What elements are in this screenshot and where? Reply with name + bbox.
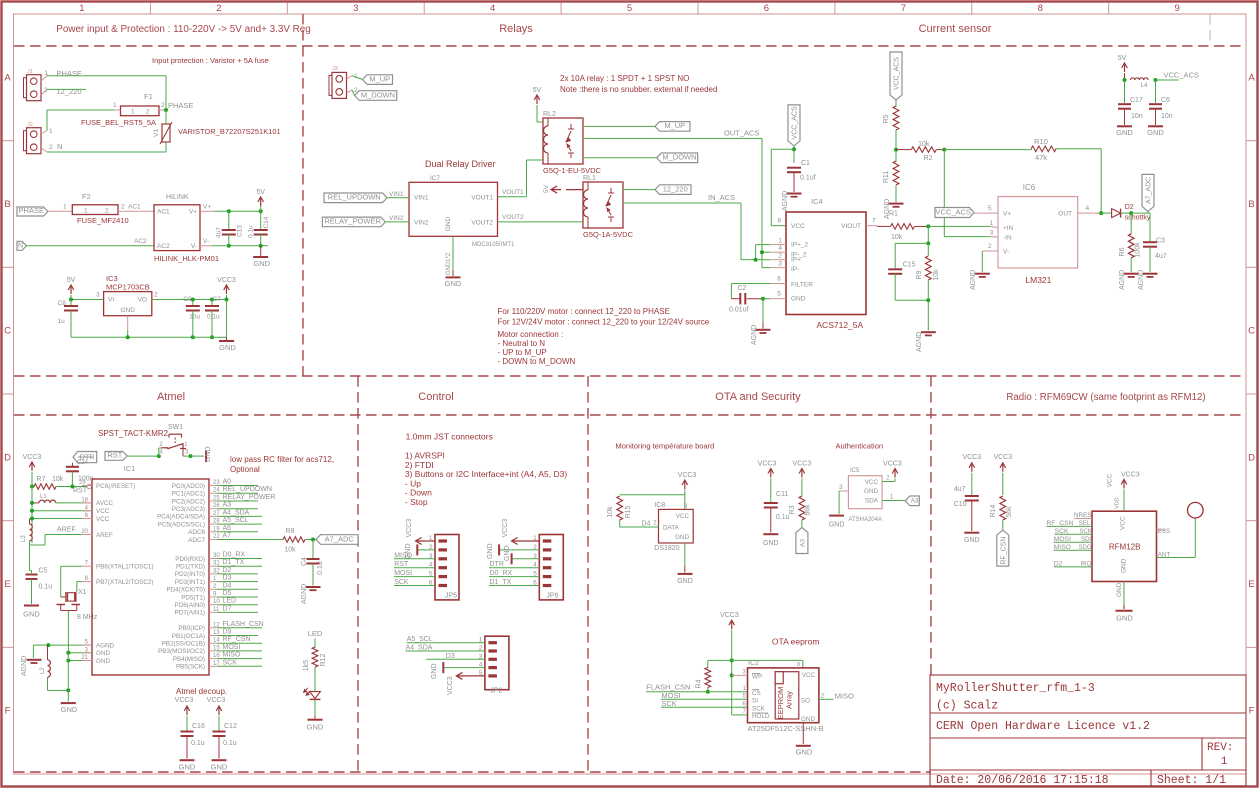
svg-text:OUT: OUT [1058, 211, 1072, 218]
svg-text:SCK: SCK [752, 705, 766, 712]
svg-text:IC2: IC2 [748, 660, 759, 667]
svg-text:L1: L1 [40, 494, 47, 500]
svg-text:PD2(INT0): PD2(INT0) [175, 571, 205, 578]
svg-text:1: 1 [79, 3, 84, 14]
svg-text:12_220: 12_220 [663, 184, 688, 193]
svg-text:SCK: SCK [394, 579, 409, 586]
svg-text:3: 3 [353, 3, 358, 14]
svg-text:D0_RX: D0_RX [490, 570, 513, 577]
svg-text:PC1(ADC1): PC1(ADC1) [172, 491, 205, 498]
svg-text:Relays: Relays [499, 23, 533, 35]
svg-text:V1: V1 [153, 129, 160, 137]
svg-text:RL1: RL1 [583, 175, 596, 182]
svg-text:5V: 5V [67, 277, 76, 284]
svg-text:VCC3: VCC3 [793, 461, 812, 468]
svg-text:AGND: AGND [21, 656, 28, 676]
svg-text:PB2(SS/OC1B): PB2(SS/OC1B) [162, 641, 205, 648]
svg-text:5: 5 [627, 3, 632, 14]
svg-text:10n: 10n [1131, 113, 1143, 120]
svg-text:R9: R9 [916, 270, 923, 279]
svg-text:GND: GND [829, 522, 845, 529]
svg-text:GND: GND [1116, 128, 1133, 137]
svg-text:GND: GND [23, 610, 40, 619]
svg-text:PC6(/RESET): PC6(/RESET) [96, 483, 135, 490]
svg-text:D3: D3 [223, 575, 232, 582]
svg-text:Array: Array [785, 691, 794, 709]
svg-text:SDA: SDA [865, 498, 879, 505]
svg-text:A4_SDA: A4_SDA [223, 509, 250, 516]
svg-text:C10: C10 [954, 501, 967, 508]
svg-text:AC1: AC1 [157, 209, 170, 216]
svg-text:GND: GND [675, 534, 689, 541]
svg-text:GND: GND [1121, 558, 1128, 573]
svg-text:C5: C5 [39, 568, 48, 575]
svg-text:VCC3: VCC3 [175, 697, 194, 704]
svg-text:2: 2 [988, 243, 992, 250]
svg-text:D3: D3 [446, 653, 455, 660]
svg-text:3: 3 [778, 261, 782, 268]
svg-text:DS1820: DS1820 [654, 545, 679, 552]
svg-text:F: F [5, 706, 11, 717]
svg-text:3: 3 [990, 230, 994, 237]
svg-text:2: 2 [146, 109, 150, 116]
svg-text:C15: C15 [903, 262, 916, 269]
svg-text:2: 2 [778, 253, 782, 260]
svg-text:VIN2: VIN2 [389, 215, 404, 222]
svg-text:Optional: Optional [230, 465, 260, 474]
svg-text:HOLD: HOLD [752, 713, 770, 720]
svg-text:A3: A3 [223, 502, 232, 509]
svg-text:MISO: MISO [394, 552, 412, 559]
svg-text:PB5(SCK): PB5(SCK) [176, 664, 205, 671]
svg-text:FUSE_BEL_RST5_5A: FUSE_BEL_RST5_5A [81, 118, 156, 127]
svg-text:2x 10A relay : 1 SPDT + 1 SPST: 2x 10A relay : 1 SPDT + 1 SPST NO [560, 74, 689, 83]
svg-text:AGND: AGND [916, 332, 923, 352]
svg-text:MISO: MISO [835, 692, 854, 701]
svg-text:GND: GND [219, 343, 236, 352]
svg-text:VCC_ACS: VCC_ACS [894, 57, 901, 90]
svg-text:RELAY_POWER: RELAY_POWER [324, 217, 381, 226]
svg-text:OTA eeprom: OTA eeprom [772, 637, 820, 647]
svg-text:IC8: IC8 [654, 502, 665, 509]
svg-text:PD3(INT1): PD3(INT1) [175, 579, 205, 586]
svg-text:SI: SI [752, 697, 758, 704]
svg-text:REL_UPDOWN: REL_UPDOWN [223, 486, 272, 493]
svg-text:ACS712_5A: ACS712_5A [816, 320, 863, 330]
svg-text:GND: GND [445, 216, 452, 231]
svg-text:VARISTOR_B72207S251K101: VARISTOR_B72207S251K101 [178, 127, 281, 136]
svg-text:AREF: AREF [96, 532, 113, 539]
svg-text:RST: RST [107, 450, 122, 459]
svg-text:GND: GND [179, 763, 196, 772]
svg-text:10k: 10k [933, 269, 940, 281]
svg-text:Radio : RFM69CW (same footprin: Radio : RFM69CW (same footprint as RFM12… [1006, 392, 1205, 403]
svg-text:RF_CSN: RF_CSN [223, 636, 251, 643]
svg-text:F: F [1249, 706, 1255, 717]
svg-text:VCC3: VCC3 [207, 697, 226, 704]
svg-text:N: N [18, 242, 23, 249]
svg-text:R3: R3 [789, 505, 796, 514]
svg-text:8: 8 [797, 662, 800, 668]
svg-text:AVCC: AVCC [96, 500, 113, 507]
svg-text:Motor connection :: Motor connection : [498, 330, 564, 339]
svg-text:Current sensor: Current sensor [919, 23, 992, 35]
svg-text:GND: GND [445, 279, 462, 288]
svg-text:VCC3: VCC3 [993, 454, 1012, 461]
svg-text:SDO: SDO [1079, 545, 1092, 551]
svg-text:V-: V- [191, 243, 197, 250]
svg-text:4u7: 4u7 [954, 486, 966, 493]
svg-text:E: E [1248, 579, 1254, 590]
svg-text:SO: SO [801, 697, 810, 704]
svg-text:C: C [1248, 326, 1255, 337]
svg-text:D7: D7 [223, 605, 232, 612]
svg-text:GND: GND [791, 295, 806, 302]
svg-text:B: B [1248, 199, 1254, 210]
svg-text:AREF: AREF [57, 527, 76, 534]
svg-text:0.1u: 0.1u [248, 225, 255, 238]
svg-text:0.1u: 0.1u [223, 740, 237, 747]
svg-text:(c) Scalz: (c) Scalz [936, 700, 998, 713]
svg-text:MOSI: MOSI [1054, 536, 1071, 543]
svg-text:VIN1: VIN1 [414, 195, 429, 202]
svg-text:2: 2 [44, 87, 48, 94]
svg-text:GND: GND [61, 705, 78, 714]
svg-text:56k: 56k [805, 504, 812, 516]
svg-text:PC4(ADC4/SDA): PC4(ADC4/SDA) [157, 514, 205, 521]
svg-text:IP+: IP+ [791, 256, 801, 263]
svg-text:PD5(T1): PD5(T1) [181, 594, 205, 601]
svg-text:low pass RC filter for acs712,: low pass RC filter for acs712, [230, 455, 334, 464]
svg-text:FUSE_MF2410: FUSE_MF2410 [77, 216, 129, 225]
svg-text:0.1u: 0.1u [207, 314, 220, 321]
svg-text:R2: R2 [924, 155, 933, 162]
svg-text:R12: R12 [320, 653, 327, 666]
svg-text:PD4(XCK/T0): PD4(XCK/T0) [167, 587, 206, 594]
svg-text:21: 21 [81, 655, 88, 661]
svg-text:IC6: IC6 [1023, 183, 1036, 192]
svg-text:For 110/220V motor : connect 1: For 110/220V motor : connect 12_220 to P… [498, 307, 670, 316]
svg-text:1: 1 [990, 220, 994, 227]
svg-text:L4: L4 [1141, 83, 1148, 89]
svg-text:10k: 10k [891, 234, 903, 241]
svg-text:20: 20 [81, 529, 88, 535]
svg-text:10n: 10n [1161, 113, 1173, 120]
svg-text:2: 2 [154, 292, 158, 299]
svg-text:E: E [4, 579, 10, 590]
svg-text:8: 8 [778, 218, 782, 225]
svg-text:B: B [4, 199, 10, 210]
svg-text:ADC7: ADC7 [188, 537, 205, 544]
svg-text:6: 6 [777, 276, 781, 283]
svg-text:R14: R14 [990, 504, 997, 517]
svg-text:C12: C12 [224, 723, 237, 730]
svg-text:SCK: SCK [1080, 529, 1092, 535]
svg-text:1: 1 [84, 207, 88, 214]
svg-text:M_UP: M_UP [664, 121, 685, 130]
svg-text:PD0(RXD): PD0(RXD) [175, 556, 205, 563]
svg-text:J2: J2 [27, 122, 33, 128]
svg-text:R5: R5 [883, 114, 890, 123]
svg-text:ADC6: ADC6 [188, 529, 205, 536]
svg-text:4: 4 [490, 3, 495, 14]
svg-text:VCC_ACS: VCC_ACS [1164, 71, 1199, 80]
svg-text:GND: GND [1116, 582, 1123, 597]
svg-text:AC2: AC2 [157, 243, 170, 250]
svg-text:SPST_TACT-KMR2: SPST_TACT-KMR2 [98, 429, 169, 438]
svg-text:8 MHz: 8 MHz [77, 614, 98, 621]
svg-text:VCC3: VCC3 [758, 461, 777, 468]
svg-text:WP: WP [752, 674, 762, 681]
svg-text:VO: VO [138, 297, 147, 304]
svg-text:A4_SDA: A4_SDA [406, 645, 433, 652]
svg-text:PD6(AIN0): PD6(AIN0) [175, 602, 205, 609]
svg-text:3) Buttons or I2C Interface+in: 3) Buttons or I2C Interface+int (A4, A5,… [405, 469, 567, 479]
svg-text:PD1(TXD): PD1(TXD) [176, 564, 205, 571]
svg-text:1: 1 [49, 128, 53, 135]
svg-text:FILTER: FILTER [791, 282, 813, 289]
svg-text:ATSHA204A: ATSHA204A [848, 517, 882, 523]
svg-text:VOUT1: VOUT1 [471, 195, 493, 202]
svg-text:Input protection : Varistor +: Input protection : Varistor + 5A fuse [152, 56, 269, 65]
svg-text:- UP to M_UP: - UP to M_UP [498, 348, 547, 357]
svg-text:VCC_ACS: VCC_ACS [792, 106, 799, 139]
svg-text:D2: D2 [1125, 204, 1134, 211]
svg-text:J1: J1 [27, 69, 33, 75]
svg-text:5V: 5V [543, 184, 550, 193]
svg-text:PB4(MISO): PB4(MISO) [173, 656, 205, 663]
svg-text:VCC: VCC [791, 223, 805, 230]
svg-text:FLASH_CSN: FLASH_CSN [223, 621, 264, 628]
svg-text:PHASE: PHASE [168, 101, 193, 110]
svg-text:V+: V+ [203, 204, 211, 211]
svg-text:PC5(ADC5/SCL): PC5(ADC5/SCL) [158, 521, 205, 528]
svg-text:VCC3: VCC3 [406, 519, 413, 538]
svg-text:A6: A6 [223, 525, 232, 532]
svg-text:GND: GND [96, 658, 110, 665]
svg-text:7: 7 [901, 3, 906, 14]
svg-text:1: 1 [1221, 756, 1228, 768]
svg-text:GND: GND [796, 748, 813, 757]
svg-text:47k: 47k [1035, 153, 1047, 162]
svg-text:AC2: AC2 [134, 238, 147, 245]
svg-text:R11: R11 [883, 171, 890, 183]
svg-text:AGND: AGND [96, 642, 115, 649]
svg-text:C24: C24 [77, 460, 89, 466]
svg-text:R8: R8 [286, 528, 295, 535]
svg-text:GND: GND [205, 446, 212, 462]
svg-text:G5Q-1A-5VDC: G5Q-1A-5VDC [583, 230, 634, 239]
svg-text:1: 1 [131, 109, 135, 116]
svg-text:MyRollerShutter_rfm_1-3: MyRollerShutter_rfm_1-3 [936, 682, 1095, 695]
svg-text:CS: CS [752, 690, 761, 697]
svg-text:CERN Open Hardware Licence v1.: CERN Open Hardware Licence v1.2 [936, 720, 1150, 733]
svg-text:M_DOWN: M_DOWN [361, 90, 395, 99]
svg-text:M_DOWN: M_DOWN [662, 153, 696, 162]
svg-text:R7: R7 [36, 476, 45, 483]
svg-text:VCC: VCC [96, 508, 110, 515]
svg-text:10k: 10k [918, 141, 930, 148]
svg-text:GND: GND [864, 488, 878, 495]
svg-text:LED: LED [223, 598, 237, 605]
svg-text:0.1u: 0.1u [317, 561, 324, 575]
svg-text:A3: A3 [799, 539, 806, 547]
svg-text:5: 5 [988, 205, 992, 212]
svg-text:LED: LED [308, 629, 323, 638]
svg-text:LM321: LM321 [1025, 275, 1051, 285]
svg-text:C6: C6 [1161, 97, 1170, 104]
svg-text:OUT_ACS: OUT_ACS [724, 129, 759, 138]
svg-text:- DOWN to M_DOWN: - DOWN to M_DOWN [498, 357, 576, 366]
svg-text:8: 8 [1038, 3, 1043, 14]
svg-text:C13: C13 [237, 225, 244, 237]
svg-text:Authentication: Authentication [836, 442, 884, 451]
svg-text:C1: C1 [801, 160, 810, 167]
svg-text:GND: GND [801, 716, 815, 723]
svg-text:+IN: +IN [1003, 225, 1014, 232]
svg-text:SCK: SCK [1055, 528, 1069, 535]
svg-text:GND1*2: GND1*2 [446, 252, 452, 275]
svg-text:A: A [1248, 72, 1255, 83]
svg-text:5V: 5V [256, 189, 265, 196]
svg-text:D: D [4, 452, 11, 463]
svg-text:RST: RST [394, 561, 409, 568]
svg-text:0.1u: 0.1u [39, 584, 53, 591]
svg-text:10k: 10k [607, 506, 614, 518]
svg-text:1k5: 1k5 [303, 660, 310, 671]
svg-text:VCC3: VCC3 [502, 519, 509, 538]
svg-text:A5_SCL: A5_SCL [223, 517, 249, 524]
svg-text:PB6(XTAL1/TOSC1): PB6(XTAL1/TOSC1) [96, 564, 154, 571]
svg-text:5V: 5V [1118, 55, 1127, 62]
svg-text:Dual Relay Driver: Dual Relay Driver [425, 159, 496, 169]
svg-text:Monitoring température board: Monitoring température board [616, 442, 715, 451]
svg-text:RFM12B: RFM12B [1109, 543, 1141, 552]
svg-text:SW1: SW1 [168, 424, 183, 431]
svg-text:C9: C9 [183, 296, 192, 303]
svg-text:MDC31050MT1: MDC31050MT1 [472, 242, 515, 248]
svg-text:2: 2 [49, 144, 53, 151]
svg-text:SCK: SCK [661, 699, 676, 708]
svg-text:VOUT2: VOUT2 [471, 220, 493, 227]
svg-text:10k: 10k [284, 547, 296, 554]
svg-text:PC3(ADC3): PC3(ADC3) [172, 506, 205, 513]
svg-text:V-: V- [1003, 249, 1009, 256]
svg-text:PC0(ADC0): PC0(ADC0) [172, 483, 205, 490]
svg-text:N: N [57, 142, 62, 151]
svg-text:VI: VI [108, 297, 114, 304]
svg-text:REL_UPDOWN: REL_UPDOWN [328, 193, 381, 202]
svg-text:IC5: IC5 [850, 468, 860, 474]
svg-text:C4: C4 [301, 557, 308, 566]
svg-text:C17: C17 [1130, 97, 1143, 104]
svg-text:1: 1 [778, 238, 782, 245]
svg-text:PB0(ICP): PB0(ICP) [178, 625, 205, 632]
svg-text:SCK: SCK [223, 659, 238, 666]
svg-text:AGND: AGND [1119, 270, 1126, 290]
svg-text:1: 1 [63, 204, 67, 211]
svg-text:D5: D5 [223, 590, 232, 597]
svg-text:Date: 20/06/2016 17:15:18: Date: 20/06/2016 17:15:18 [936, 774, 1109, 787]
svg-text:IRQ: IRQ [1081, 561, 1092, 567]
svg-text:0.1uf: 0.1uf [800, 175, 816, 182]
svg-text:10u: 10u [189, 314, 200, 321]
svg-text:J3: J3 [332, 66, 338, 72]
svg-text:AGND: AGND [884, 199, 891, 219]
svg-text:For 12V/24V motor : connect 12: For 12V/24V motor : connect 12_220 to yo… [498, 318, 710, 327]
svg-text:L3: L3 [21, 535, 27, 542]
svg-text:MISO: MISO [1054, 544, 1071, 551]
svg-text:12_220: 12_220 [57, 87, 82, 96]
svg-text:D1_TX: D1_TX [490, 579, 512, 586]
svg-text:GND: GND [487, 543, 494, 559]
svg-text:0.1u: 0.1u [191, 740, 205, 747]
svg-text:PB3(MOSI/OC2): PB3(MOSI/OC2) [158, 648, 205, 655]
svg-text:A0: A0 [223, 479, 232, 486]
svg-text:V-: V- [203, 238, 209, 245]
svg-text:IC7: IC7 [430, 175, 441, 182]
svg-text:C8: C8 [58, 300, 67, 307]
svg-text:2: 2 [105, 207, 109, 214]
svg-text:R15: R15 [625, 505, 632, 518]
svg-text:JP6: JP6 [546, 593, 558, 600]
svg-text:VCC3: VCC3 [678, 472, 697, 479]
svg-text:schottky: schottky [1125, 215, 1151, 222]
svg-text:R6: R6 [1119, 247, 1126, 256]
svg-text:GND: GND [120, 307, 135, 314]
svg-text:VIOUT: VIOUT [841, 223, 861, 230]
svg-text:D: D [1248, 452, 1255, 463]
svg-text:DATA: DATA [663, 525, 680, 532]
svg-text:10k: 10k [52, 476, 64, 483]
svg-text:-IN: -IN [1003, 235, 1012, 242]
svg-text:MCP1703CB: MCP1703CB [106, 283, 150, 292]
svg-text:RF_CSN: RF_CSN [1046, 520, 1073, 527]
svg-text:9: 9 [1175, 3, 1180, 14]
svg-text:VOUT1: VOUT1 [502, 189, 524, 196]
svg-text:GND: GND [431, 663, 438, 679]
svg-text:HILINK: HILINK [166, 194, 189, 201]
svg-text:Sheet: 1/1: Sheet: 1/1 [1157, 774, 1226, 787]
svg-text:GND: GND [677, 578, 693, 585]
svg-text:D2: D2 [1054, 560, 1063, 567]
svg-text:MOSI: MOSI [394, 570, 412, 577]
svg-text:A: A [4, 72, 11, 83]
svg-text:RF_CSN: RF_CSN [1000, 537, 1007, 565]
svg-text:F2: F2 [82, 192, 91, 201]
svg-text:IC1: IC1 [124, 464, 136, 473]
svg-text:OTA and Security: OTA and Security [715, 391, 801, 403]
svg-text:SEL: SEL [1079, 521, 1091, 527]
svg-text:A7_ADC: A7_ADC [1146, 177, 1153, 204]
svg-text:GND: GND [763, 540, 779, 547]
svg-text:VDD: VDD [1115, 497, 1121, 509]
svg-text:AGND: AGND [782, 191, 789, 211]
svg-text:DTR: DTR [490, 561, 504, 568]
svg-text:7: 7 [872, 218, 876, 225]
svg-text:A7: A7 [223, 533, 232, 540]
svg-text:4u7: 4u7 [216, 227, 223, 238]
svg-text:L2: L2 [40, 667, 46, 674]
svg-text:RELAY_POWER: RELAY_POWER [223, 494, 276, 501]
svg-text:0.01uf: 0.01uf [729, 307, 749, 314]
svg-text:GND: GND [307, 723, 324, 732]
svg-text:4: 4 [1086, 205, 1090, 212]
svg-text:2: 2 [216, 3, 221, 14]
svg-text:A5_SCL: A5_SCL [407, 636, 433, 643]
svg-text:56k: 56k [1006, 506, 1013, 518]
svg-text:REV:: REV: [1207, 742, 1233, 754]
